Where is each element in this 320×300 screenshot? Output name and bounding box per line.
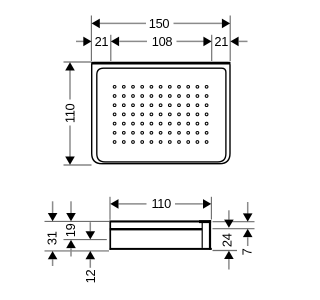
dimension 110 side view: [110, 196, 211, 220]
right extension line bottom: [213, 250, 238, 252]
svg-text:21: 21: [95, 34, 109, 49]
extension line 108-left: [110, 35, 112, 61]
side view: tray surface thick band: [109, 228, 202, 230]
right extension line top (side view): [213, 221, 255, 223]
side view: bracket right thick edge: [209, 220, 211, 250]
extension line left (150/21): [90, 16, 92, 62]
svg-text:19: 19: [63, 223, 78, 237]
dimension 31: [45, 201, 60, 266]
perforation hole grid 11 cols x 7 rows: [113, 85, 208, 143]
dimension 110 left of top view: [63, 62, 92, 165]
extension line right (110 side): [210, 197, 212, 220]
side view: bracket inner seam line: [201, 222, 203, 248]
extension line top (110): [64, 61, 92, 63]
svg-text:150: 150: [149, 16, 170, 31]
svg-text:24: 24: [220, 233, 235, 247]
left extension line top of side view: [45, 220, 110, 222]
dimension 21 left: [76, 34, 108, 49]
dimension 150: [92, 16, 231, 31]
dimension 24: [220, 210, 235, 269]
side view: left edge: [109, 221, 111, 250]
extension line left (110 side): [109, 197, 111, 220]
dimension 19: [63, 201, 78, 256]
svg-text:108: 108: [152, 34, 173, 49]
tray top view: thick wall-side top edge: [91, 62, 230, 65]
extension line right (150/21): [229, 16, 231, 62]
svg-text:110: 110: [63, 103, 78, 123]
side view: top lip line: [109, 220, 211, 222]
side view: bottom edge: [109, 248, 211, 250]
dimension 108: [111, 34, 212, 49]
extension line 19/12 level: [64, 239, 107, 241]
svg-text:21: 21: [214, 34, 228, 49]
extension line bottom (110): [64, 164, 92, 166]
dimension 7: [239, 202, 254, 255]
dimension 12: [83, 222, 98, 283]
svg-text:12: 12: [83, 270, 98, 284]
dimension 21 right: [214, 34, 247, 49]
svg-text:31: 31: [45, 231, 60, 245]
tray top view: outer outline: [92, 63, 230, 164]
svg-text:7: 7: [239, 248, 254, 255]
extension line 108-right: [211, 35, 213, 61]
tray top view: inner recess outline: [97, 68, 226, 162]
svg-text:110: 110: [151, 196, 171, 211]
right extension line band-top: [213, 228, 255, 230]
extension line bottom-left: [45, 250, 110, 252]
side view: bracket top thick segment: [199, 220, 211, 223]
